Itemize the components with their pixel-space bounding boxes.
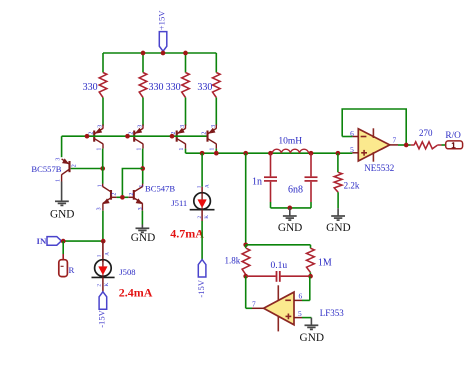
junction base Q1 [85, 134, 90, 139]
junction 1.8k top [243, 242, 248, 247]
junction 0.1u right [308, 274, 313, 279]
svg-text:2: 2 [202, 132, 208, 135]
svg-text:1M: 1M [318, 257, 332, 268]
resistor 330 #3 [182, 73, 190, 98]
svg-text:GND: GND [131, 232, 155, 244]
svg-text:1: 1 [136, 148, 142, 151]
wire J508 to -15V [102, 277, 104, 291]
svg-text:A: A [204, 184, 210, 188]
power port -15V (left) [99, 292, 107, 309]
junction bus-R330b [141, 51, 146, 56]
svg-text:2.2k: 2.2k [344, 180, 360, 190]
svg-text:2: 2 [129, 193, 135, 196]
wire Q3 collector [185, 149, 187, 154]
svg-text:3: 3 [98, 125, 104, 128]
resistor 1M [310, 245, 312, 248]
wire LF353 output [252, 307, 264, 309]
ground GND5 [305, 324, 319, 326]
transistor BC547B left (diff pair) [110, 190, 112, 200]
svg-text:2: 2 [72, 164, 78, 167]
svg-text:LF353: LF353 [320, 308, 345, 318]
resistor 330 #1 [99, 73, 107, 98]
junction Q2 collector / diff base link [140, 166, 145, 171]
wire IN [61, 240, 103, 242]
wire pin5 lead [352, 152, 358, 154]
junction BC557B base / Q1 collector [100, 166, 105, 171]
wire diff left emitter down [102, 211, 104, 241]
power port +15V [159, 32, 167, 52]
wire right emitter gnd stem [141, 225, 143, 229]
ground GND3 [289, 208, 291, 216]
wire R330b-Q2 [142, 98, 144, 126]
svg-text:IN: IN [37, 236, 47, 246]
svg-text:7: 7 [393, 136, 397, 145]
resistor 330 #2 [139, 73, 147, 98]
op-amp LF353 [264, 292, 294, 325]
wire R top lead [62, 241, 64, 254]
svg-text:4.7mA: 4.7mA [170, 226, 204, 240]
resistor 1.8k [245, 245, 247, 248]
resistor 270 [414, 142, 437, 149]
svg-text:GND: GND [300, 332, 324, 344]
wire feedback [342, 136, 352, 138]
wire R330c-Q3 [185, 98, 187, 126]
wire diff base link [122, 169, 142, 198]
wire integrator top [246, 244, 311, 246]
wire +15V bus [103, 52, 216, 54]
transistor Q2 (PNP current source) [133, 131, 135, 142]
svg-text:R/O: R/O [445, 131, 461, 141]
ground GND4 [337, 208, 339, 216]
svg-text:R: R [69, 265, 75, 275]
svg-text:10mH: 10mH [278, 136, 302, 146]
svg-text:J511: J511 [171, 198, 187, 208]
junction IN-R [61, 239, 66, 244]
transistor BC547B right (diff pair) [133, 190, 135, 200]
svg-text:1: 1 [179, 148, 185, 151]
capacitor 6n8 [310, 153, 312, 176]
wire Q1 collector column [102, 149, 104, 184]
wire J511 to -15V [201, 210, 203, 221]
wire BC557B collector to ground [61, 182, 63, 202]
wire R330a-Q1 [102, 98, 104, 126]
svg-text:1n: 1n [252, 177, 262, 188]
transistor Q4 (PNP current source) [206, 131, 208, 142]
wire resistor R330b top lead [142, 53, 144, 73]
svg-text:1: 1 [139, 185, 145, 188]
svg-text:K: K [104, 283, 110, 287]
capacitor 1n [270, 153, 272, 176]
wire Q4 collector [215, 149, 217, 154]
wire diff right emitter down [141, 211, 143, 225]
svg-text:2: 2 [88, 132, 94, 135]
svg-text:2: 2 [112, 193, 118, 196]
svg-text:A: A [104, 252, 110, 256]
svg-text:330: 330 [83, 82, 98, 93]
wire diff bases [117, 196, 129, 198]
svg-text:0.1u: 0.1u [270, 261, 287, 271]
svg-text:BC547B: BC547B [145, 183, 175, 193]
wire 2.2k to gnd [337, 192, 339, 208]
junction base Q2 [125, 134, 130, 139]
inductor 10mH [272, 149, 308, 153]
junction base Q3 [170, 134, 175, 139]
svg-text:3: 3 [138, 207, 144, 210]
svg-text:1: 1 [210, 148, 216, 151]
wire base rail [62, 135, 207, 137]
svg-text:3: 3 [138, 125, 144, 128]
svg-text:3: 3 [55, 158, 61, 161]
svg-text:2: 2 [128, 132, 134, 135]
svg-text:270: 270 [419, 128, 433, 138]
svg-text:6n8: 6n8 [288, 184, 303, 195]
ground GND1 [55, 200, 69, 202]
junction bus +15V [161, 51, 166, 56]
wire base rail drop left [61, 136, 63, 157]
svg-text:K: K [204, 215, 210, 219]
svg-text:3: 3 [97, 207, 103, 210]
wire resistor R330c top lead [185, 53, 187, 73]
wire filter bottom [270, 202, 272, 208]
junction IN-J508 [101, 239, 106, 244]
svg-text:1: 1 [56, 179, 62, 182]
svg-text:330: 330 [166, 82, 181, 93]
svg-text:330: 330 [149, 82, 164, 93]
svg-text:1.8k: 1.8k [225, 255, 241, 265]
wire resistor R330d top lead [215, 53, 217, 73]
resistor 330 #4 [213, 73, 221, 98]
svg-text:NE5532: NE5532 [364, 163, 394, 173]
wire R330d-Q4 [215, 98, 217, 126]
transistor BC557B [68, 161, 70, 172]
junction Q4 collector [214, 151, 219, 156]
wire branch down [245, 153, 247, 245]
current source J511 [201, 153, 203, 187]
svg-text:GND: GND [50, 208, 74, 220]
svg-text:1: 1 [196, 185, 202, 188]
svg-text:2: 2 [96, 284, 102, 287]
svg-text:1: 1 [97, 184, 103, 187]
junction diff pair bases [120, 195, 125, 200]
svg-text:7: 7 [252, 299, 256, 308]
transistor Q3 (PNP current source) [176, 131, 178, 142]
capacitor 0.1u [246, 275, 276, 277]
svg-text:GND: GND [278, 222, 302, 234]
wire main line [186, 152, 353, 154]
junction bus-R330c [183, 51, 188, 56]
svg-text:1: 1 [96, 254, 102, 257]
transistor Q1 (PNP current source) [93, 131, 95, 142]
svg-text:6: 6 [298, 291, 302, 300]
svg-text:-15V: -15V [97, 309, 107, 327]
svg-text:+15V: +15V [157, 10, 167, 30]
resistor 2.2k [337, 153, 339, 172]
junction J511 tap [200, 151, 205, 156]
port IN [47, 237, 61, 246]
op-amp NE5532 [358, 129, 389, 161]
wire output [390, 144, 398, 146]
svg-text:3: 3 [211, 125, 217, 128]
junction 0.1u left [243, 274, 248, 279]
wire pin6 lead [352, 136, 358, 138]
wire LF353 pin5 [294, 317, 302, 319]
junction 2.2k tap [336, 151, 341, 156]
svg-text:330: 330 [197, 82, 212, 93]
svg-text:BC557B: BC557B [31, 164, 61, 174]
wire Q2 collector column [142, 149, 144, 184]
junction feedback tap [243, 151, 248, 156]
junction L left / C1n [268, 151, 273, 156]
svg-text:3: 3 [180, 125, 186, 128]
power port -15V (middle) [198, 260, 206, 277]
junction L right / C6n8 [309, 151, 314, 156]
svg-text:GND: GND [326, 222, 350, 234]
ground GND2 [136, 227, 150, 229]
junction output [404, 143, 409, 148]
svg-text:-15V: -15V [196, 279, 206, 297]
svg-text:2.4mA: 2.4mA [119, 286, 153, 300]
svg-text:J508: J508 [119, 267, 135, 277]
wire BC557B base [71, 168, 103, 170]
port R/O [446, 141, 463, 149]
resistor R (box) [59, 260, 68, 277]
wire resistor R330a top lead [102, 53, 104, 73]
wire LF353 pin6 [294, 299, 302, 301]
current source J508 [102, 241, 104, 262]
svg-text:1: 1 [96, 148, 102, 151]
junction filter gnd [287, 206, 292, 211]
